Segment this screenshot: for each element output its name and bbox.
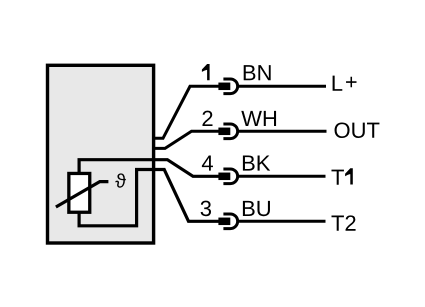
wire: thermistor top lead to pin 4 (T1) xyxy=(79,160,219,177)
thermistor diagonal stroke xyxy=(56,182,109,207)
wire 2 from housing to connector WH xyxy=(155,131,219,148)
thermistor temperature label ϑ xyxy=(115,173,125,187)
terminal T1 digit one xyxy=(345,168,353,184)
wire 3 to T2 xyxy=(238,220,325,223)
terminal OUT xyxy=(335,122,380,138)
wire colour BN xyxy=(244,65,271,80)
terminal T1 xyxy=(331,170,343,185)
connector pin 3 plug xyxy=(218,218,230,226)
wire 1 from housing to connector BN xyxy=(155,86,219,138)
connector pin 4 plug xyxy=(218,173,230,181)
wire 2 to OUT xyxy=(238,130,326,133)
terminal T2 xyxy=(331,215,355,230)
pin number 1 xyxy=(202,64,210,80)
sensor housing box xyxy=(48,65,154,243)
terminal L+ xyxy=(333,76,343,91)
connector pin 1 plug xyxy=(218,83,230,91)
connector pin 3 socket arc xyxy=(223,214,237,229)
wire colour BU xyxy=(243,201,270,216)
pin number 4 xyxy=(202,155,213,170)
wire 4 to T1 xyxy=(238,175,325,178)
connector pin 2 socket arc xyxy=(223,124,237,139)
terminal L+ superscript plus xyxy=(346,77,356,88)
pin number 2 xyxy=(202,111,212,126)
connector pin 1 socket arc xyxy=(223,79,237,94)
wire colour WH xyxy=(241,111,276,126)
thermistor RT xyxy=(69,173,90,212)
connector pin 2 plug xyxy=(218,128,230,136)
wire colour BK xyxy=(243,155,270,170)
connector pin 4 socket arc xyxy=(223,169,237,184)
pin number 3 xyxy=(201,201,211,217)
wire: thermistor bottom lead loop to pin 3 (T2) xyxy=(79,170,219,226)
wire 1 to L+ xyxy=(238,85,326,88)
